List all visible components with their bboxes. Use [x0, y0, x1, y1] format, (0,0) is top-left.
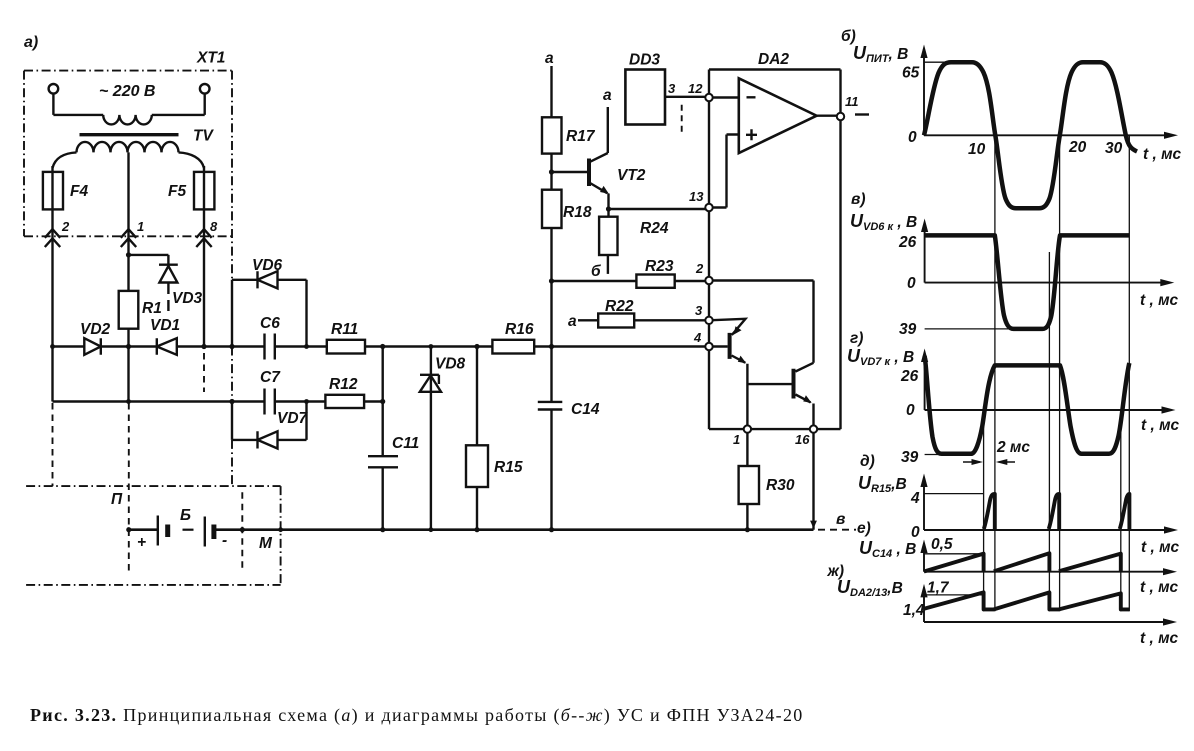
svg-text:39: 39	[899, 321, 917, 338]
svg-text:2 мс: 2 мс	[996, 439, 1030, 456]
svg-text:1: 1	[733, 432, 740, 447]
svg-text:C11: C11	[392, 435, 419, 452]
svg-text:0: 0	[907, 275, 916, 292]
svg-text:11: 11	[845, 94, 859, 109]
svg-text:д): д)	[860, 453, 875, 470]
svg-text:-: -	[222, 532, 227, 549]
svg-text:UC14 , В: UC14 , В	[859, 538, 916, 560]
svg-text:+: +	[137, 534, 146, 551]
svg-text:1,7: 1,7	[927, 580, 950, 597]
svg-text:3: 3	[695, 303, 703, 318]
svg-text:DA2: DA2	[758, 51, 789, 68]
svg-text:VD8: VD8	[435, 356, 466, 373]
svg-text:г): г)	[850, 330, 863, 347]
svg-text:Рис. 3.23. Принципиальная схем: Рис. 3.23. Принципиальная схема (а) и ди…	[30, 705, 804, 726]
svg-text:0: 0	[911, 524, 920, 541]
svg-text:1: 1	[137, 219, 144, 234]
svg-text:R24: R24	[640, 220, 669, 237]
svg-text:t , мс: t , мс	[1140, 630, 1179, 647]
svg-text:0,5: 0,5	[931, 536, 953, 553]
svg-text:t , мс: t , мс	[1143, 146, 1182, 163]
svg-text:10: 10	[968, 141, 986, 158]
svg-text:~ 220 В: ~ 220 В	[99, 83, 155, 100]
svg-text:F5: F5	[168, 183, 186, 200]
svg-text:4: 4	[693, 330, 702, 345]
svg-text:13: 13	[689, 189, 704, 204]
svg-text:a: a	[568, 313, 577, 330]
svg-text:R18: R18	[563, 204, 592, 221]
svg-text:C6: C6	[260, 315, 280, 332]
svg-text:0: 0	[908, 129, 917, 146]
svg-text:П: П	[111, 491, 123, 508]
svg-text:C14: C14	[571, 401, 600, 418]
svg-text:0: 0	[906, 402, 915, 419]
svg-text:R16: R16	[505, 321, 534, 338]
svg-text:UVD7 к , В: UVD7 к , В	[847, 346, 914, 368]
svg-text:UR15,В: UR15,В	[858, 473, 907, 495]
svg-text:R12: R12	[329, 376, 358, 393]
svg-text:R23: R23	[645, 258, 674, 275]
svg-text:R17: R17	[566, 128, 596, 145]
svg-text:a: a	[603, 87, 612, 104]
svg-text:t , мс: t , мс	[1141, 417, 1180, 434]
svg-text:R15: R15	[494, 459, 523, 476]
svg-text:XT1: XT1	[196, 50, 225, 67]
svg-text:12: 12	[688, 81, 703, 96]
svg-text:t , мс: t , мс	[1141, 539, 1180, 556]
svg-text:в: в	[836, 511, 845, 528]
svg-text:4: 4	[910, 490, 920, 507]
svg-text:a: a	[545, 50, 554, 67]
svg-text:DD3: DD3	[629, 52, 660, 69]
svg-text:М: М	[259, 535, 273, 552]
svg-text:8: 8	[210, 219, 218, 234]
svg-text:R30: R30	[766, 477, 795, 494]
svg-text:65: 65	[902, 65, 920, 82]
svg-text:UVD6 к , В: UVD6 к , В	[850, 211, 917, 233]
svg-text:б: б	[591, 263, 601, 280]
svg-text:t , мс: t , мс	[1140, 292, 1179, 309]
svg-text:Б: Б	[180, 507, 191, 524]
svg-text:t , мс: t , мс	[1140, 579, 1179, 596]
svg-text:26: 26	[900, 368, 919, 385]
svg-text:30: 30	[1105, 140, 1123, 157]
svg-text:TV: TV	[193, 128, 214, 145]
svg-text:39: 39	[901, 449, 919, 466]
svg-text:R22: R22	[605, 298, 634, 315]
svg-text:а): а)	[24, 34, 38, 51]
svg-text:VD1: VD1	[150, 317, 180, 334]
svg-text:26: 26	[898, 234, 917, 251]
svg-text:1,4: 1,4	[903, 602, 925, 619]
svg-text:16: 16	[795, 432, 810, 447]
svg-text:3: 3	[668, 81, 676, 96]
svg-text:VT2: VT2	[617, 167, 646, 184]
svg-text:2: 2	[695, 261, 704, 276]
svg-text:UDA2/13,В: UDA2/13,В	[837, 577, 903, 599]
svg-text:VD6: VD6	[252, 257, 283, 274]
svg-text:VD7: VD7	[277, 410, 309, 427]
svg-text:UПИТ, В: UПИТ, В	[853, 43, 908, 65]
svg-text:2: 2	[61, 219, 70, 234]
svg-text:R11: R11	[331, 321, 358, 338]
svg-text:в): в)	[851, 191, 866, 208]
svg-text:VD2: VD2	[80, 321, 111, 338]
svg-text:20: 20	[1068, 139, 1087, 156]
svg-text:е): е)	[857, 520, 871, 537]
svg-text:VD3: VD3	[172, 290, 203, 307]
svg-text:F4: F4	[70, 183, 88, 200]
svg-text:R1: R1	[142, 300, 162, 317]
svg-text:C7: C7	[260, 369, 281, 386]
